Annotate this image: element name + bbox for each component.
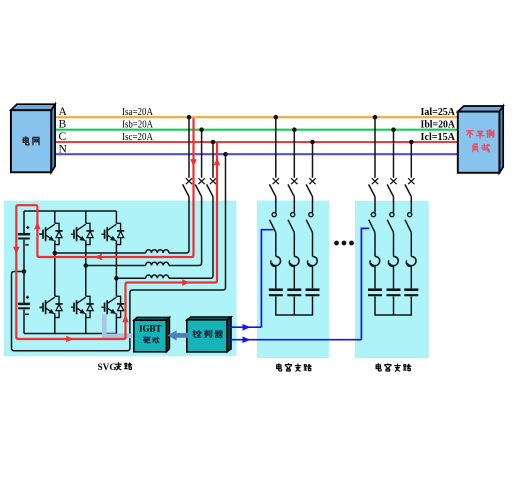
red arrow right on lower mid run — [182, 279, 190, 286]
wire collector stub Q1 — [54, 211, 56, 223]
IGBT driver box (IGBT qu-dong) — [134, 317, 170, 352]
capacitor branch 2 background box — [355, 201, 429, 358]
svg-text:A: A — [59, 106, 68, 118]
wire capacitor branch 2 B contactor to reactor — [393, 232, 395, 256]
blue arrow on control line 1 — [243, 324, 251, 331]
ellipsis dots between branches — [334, 241, 354, 246]
wire capacitor branch 1 C reactor to capacitor — [312, 266, 314, 288]
wire capacitor branch 1 A reactor to capacitor — [275, 266, 277, 288]
IGBT Q6 (lower phase C) with freewheel diode — [102, 296, 125, 317]
reactor capacitor branch 2 phase B — [389, 256, 398, 265]
wire SVG tap C down to inductor line — [169, 197, 213, 279]
label 电容支路 (branch 1) — [277, 364, 312, 371]
wire capacitor branch 1 C contactor to reactor — [312, 232, 314, 256]
reactor capacitor branch 2 phase C — [407, 256, 416, 265]
contactor capacitor branch 1 phase B — [288, 213, 295, 233]
capacitor capacitor branch 2 phase A — [368, 290, 382, 296]
label 电容支路 (branch 2) — [376, 364, 411, 371]
wire capacitor branch 1 star point — [276, 296, 313, 315]
wire capacitor branch 2 star point — [375, 296, 411, 315]
reactor capacitor branch 2 phase A — [371, 256, 380, 265]
junction dot capacitor branch 1 phase B tap — [292, 127, 297, 132]
junction dot phase C midpoint — [114, 276, 119, 281]
capacitor capacitor branch 1 phase A — [269, 290, 283, 296]
red arrow up on C riser — [214, 158, 221, 166]
wire capacitor branch 1 B contactor to reactor — [293, 232, 295, 256]
wire midpoint C to Q6 collector — [115, 278, 117, 296]
controller box (kong-zhi-qi) — [187, 317, 231, 352]
capacitor capacitor branch 1 phase B — [287, 290, 301, 296]
circuit breaker capacitor branch 2 phase C — [405, 142, 415, 197]
circuit breaker capacitor branch 1 phase C — [306, 142, 316, 197]
circuit breaker QF1c (SVG branch phase C) — [207, 142, 217, 197]
red arrow up near DC+ — [34, 222, 41, 230]
wire midpoint A to Q4 collector — [54, 253, 56, 296]
wire collector stub Q2 — [85, 211, 87, 223]
wire emitter Q2 to midpoint — [85, 240, 87, 265]
red arrow down on A drop — [190, 159, 197, 167]
wire capacitor branch 2 A reactor to capacitor — [374, 266, 376, 288]
contactor capacitor branch 2 phase C — [405, 213, 412, 233]
junction dot B-SVG tap — [199, 127, 204, 132]
wire capacitor branch 2 C contactor to reactor — [410, 232, 412, 256]
wire SVG tap B down to inductor line — [169, 197, 202, 266]
contactor capacitor branch 2 phase A — [369, 213, 376, 233]
wire emitter Q1 to midpoint — [54, 240, 56, 253]
circuit breaker capacitor branch 2 phase A — [369, 117, 379, 196]
wire capacitor branch 1 B breaker to contactor — [293, 197, 295, 213]
contactor capacitor branch 1 phase C — [306, 213, 313, 233]
wire capacitor branch 1 A breaker to contactor — [275, 197, 277, 213]
inductor L1 (phase A) — [146, 250, 169, 253]
red arrow up on right leg — [122, 315, 129, 323]
svg-text:Icl=15A: Icl=15A — [421, 131, 456, 143]
load box label 负载 — [472, 144, 478, 152]
svg-text:C: C — [59, 131, 67, 143]
junction dot capacitor branch 2 phase C tap — [409, 140, 414, 145]
DC top bus — [24, 210, 116, 212]
wire capacitor branch 2 C breaker to contactor — [410, 197, 412, 213]
SVG branch background box — [4, 201, 237, 357]
wire capacitor branch 1 B reactor to capacitor — [293, 266, 295, 288]
IGBT Q2 (upper phase B) with freewheel diode — [71, 223, 94, 244]
unbalanced load box — [458, 106, 503, 173]
wire N tap down-around to DC midpoint — [12, 154, 226, 351]
bus N (blue) — [56, 153, 458, 155]
red arrow right on bottom run — [66, 336, 74, 343]
circuit breaker QF1a (SVG branch phase A) — [183, 117, 193, 196]
wire capacitor branch 2 C reactor to capacitor — [410, 266, 412, 288]
junction dot phase A midpoint — [53, 251, 58, 256]
reactor capacitor branch 1 phase B — [290, 256, 299, 265]
DC capacitor C2 (lower) — [18, 273, 43, 334]
svg-text:Isb=20A: Isb=20A — [122, 119, 153, 131]
circuit breaker capacitor branch 1 phase B — [288, 130, 298, 197]
svg-text:SVG: SVG — [98, 363, 117, 373]
label SVG支路 — [98, 363, 132, 373]
svg-text:N: N — [59, 143, 68, 155]
thick arrow controller to IGBT driver — [168, 330, 189, 340]
capacitor branch 1 background box — [257, 201, 329, 359]
bus C (red) — [56, 141, 458, 143]
svg-text:Ial=25A: Ial=25A — [421, 106, 456, 118]
blue control line to capacitor branch 2 — [227, 228, 369, 339]
wire collector stub Q3 — [115, 211, 117, 223]
reactor capacitor branch 1 phase A — [272, 256, 281, 265]
contactor capacitor branch 1 phase A — [270, 213, 277, 233]
circuit breaker QF1b (SVG branch phase B) — [195, 130, 205, 197]
circuit breaker capacitor branch 2 phase B — [387, 130, 397, 197]
blue arrow on control line 2 — [243, 336, 251, 343]
wire phase A midpoint to inductor L1 — [55, 252, 146, 254]
junction dot DC midpoint — [22, 269, 27, 274]
red arrow down on left leg — [13, 247, 20, 255]
wire emitter Q4 to DC- bus — [54, 313, 56, 333]
wire phase B midpoint to inductor L2 — [86, 265, 146, 267]
IGBT driver label 驱动 — [144, 337, 150, 343]
blue control line to capacitor branch 1 — [227, 230, 273, 328]
junction dot N-SVG tap — [223, 152, 228, 157]
wire midpoint B to Q5 collector — [85, 266, 87, 297]
circuit breaker capacitor branch 1 phase A — [269, 117, 279, 196]
junction dot C-SVG tap — [211, 140, 216, 145]
svg-text:IGBT: IGBT — [139, 323, 162, 333]
red arrow left on mid run — [94, 254, 102, 261]
junction dot A-SVG tap — [187, 115, 192, 120]
inductor L2 (phase B) — [146, 262, 169, 265]
junction dot capacitor branch 2 phase B tap — [391, 127, 396, 132]
junction dot capacitor branch 2 phase A tap — [373, 115, 378, 120]
wire capacitor branch 1 C breaker to contactor — [312, 197, 314, 213]
junction dot capacitor branch 1 phase C tap — [310, 140, 315, 145]
wire capacitor branch 2 B breaker to contactor — [393, 197, 395, 213]
IGBT Q5 (lower phase B) with freewheel diode — [71, 296, 94, 317]
red current path (A phase in, C phase out) — [16, 118, 217, 339]
junction dot phase B midpoint — [84, 263, 89, 268]
load box label 不平衡 — [467, 131, 473, 138]
wire capacitor branch 2 B reactor to capacitor — [393, 266, 395, 288]
bus B (green) — [56, 129, 458, 131]
reactor capacitor branch 1 phase C — [308, 256, 317, 265]
IGBT Q3 (upper phase C) with freewheel diode — [102, 223, 125, 244]
wire emitter Q3 to midpoint — [115, 240, 117, 278]
inductor L3 (phase C) — [146, 275, 169, 278]
wire phase C midpoint to inductor L3 — [116, 277, 145, 279]
capacitor capacitor branch 1 phase C — [306, 290, 320, 296]
bus A (orange) — [56, 116, 458, 118]
wire emitter Q5 to DC- bus — [85, 313, 87, 333]
DC capacitor C1 (upper) — [18, 211, 43, 270]
capacitor capacitor branch 2 phase B — [387, 290, 401, 296]
svg-text:B: B — [59, 119, 67, 131]
contactor capacitor branch 2 phase B — [387, 213, 394, 233]
junction dot capacitor branch 1 phase A tap — [274, 115, 279, 120]
wire capacitor branch 1 A contactor to reactor — [275, 232, 277, 256]
wire SVG tap A down to inductor line — [169, 197, 189, 253]
svg-text:Isa=20A: Isa=20A — [122, 106, 153, 118]
IGBT Q1 (upper phase A) with freewheel diode — [40, 223, 63, 244]
grid box label 电网 — [23, 137, 29, 145]
wire emitter Q6 to DC- bus — [115, 313, 117, 333]
capacitor capacitor branch 2 phase C — [404, 290, 418, 296]
svg-text:Isc=20A: Isc=20A — [122, 131, 153, 143]
power grid box (dian-wang) — [11, 104, 55, 172]
IGBT Q4 (lower phase A) with freewheel diode — [40, 296, 63, 317]
DC bottom bus — [24, 333, 116, 335]
controller label 控制器 — [193, 330, 201, 337]
svg-text:Ibl=20A: Ibl=20A — [421, 119, 456, 131]
wire capacitor branch 2 A breaker to contactor — [374, 197, 376, 213]
gate drive link (pale blue) from bridge to IGBT driver — [104, 314, 132, 335]
wire capacitor branch 2 A contactor to reactor — [374, 232, 376, 256]
